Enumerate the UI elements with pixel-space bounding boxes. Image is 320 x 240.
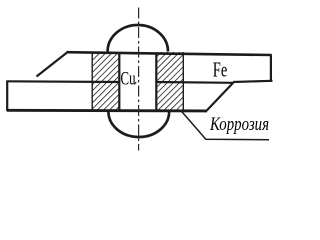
plate interface line left [7, 80, 120, 83]
label Cu period dot [135, 82, 137, 84]
svg-text:Fe: Fe [213, 57, 228, 81]
top plate bottom edge right [233, 81, 273, 82]
rivet bottom head dome [108, 112, 169, 138]
plate interface line right [156, 81, 233, 84]
bottom plate left end [6, 81, 8, 112]
hatched section left block [92, 52, 120, 111]
rivet top head dome [108, 25, 168, 52]
svg-text:Cu: Cu [121, 68, 136, 89]
bottom plate bottom edge [7, 109, 207, 112]
top plate right end [270, 55, 272, 82]
rivet shank right line [155, 53, 157, 111]
leader line to corrosion [182, 112, 269, 140]
centerline [138, 8, 140, 151]
rivet shank left line [118, 53, 120, 111]
top plate top edge [67, 52, 272, 55]
hatched section right block [156, 52, 184, 111]
svg-text:Коррозия: Коррозия [209, 115, 269, 135]
bottom plate right bevel [207, 83, 234, 111]
top plate left bevel [37, 52, 69, 77]
